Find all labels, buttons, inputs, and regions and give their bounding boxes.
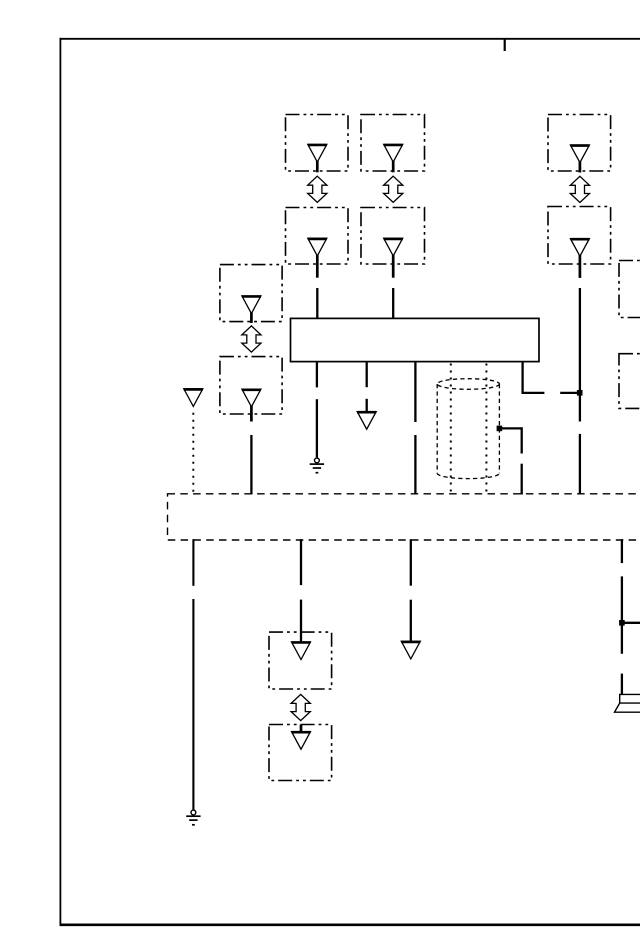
module box C1 [220,265,282,322]
module box A2 [361,115,425,172]
shield terminal dot [497,426,503,432]
connector symbol in B3 [570,239,589,278]
ground G1 [310,458,324,473]
dotted shielded wire 1 [450,364,452,494]
module box B3 [548,207,611,265]
module box D1 [269,632,332,689]
connector symbol in A3 [570,145,589,173]
arrow terminal A [357,412,376,430]
chassis ground symbol [615,694,640,712]
wire U1 corner to node J1 (dashed style) [523,362,579,393]
module box A3 [548,115,611,172]
wire U1 to harness [414,362,416,494]
inline connector pair arrow 5 [291,694,310,720]
wire harness to arrow terminal B [410,539,412,641]
harness band (dashed box) [168,494,640,540]
connector symbol in B2 [384,238,403,277]
wire C2 to harness [250,435,252,495]
module box E1 (partial, right edge) [619,261,640,318]
dotted shielded wire 2 [485,364,487,494]
wire B1 to U1 [316,288,318,318]
module box B2 [361,208,425,265]
module box A1 [286,115,349,172]
connector symbol in D2 [292,725,311,750]
wire B2 to U1 [392,288,394,318]
wire B3 down [579,288,581,495]
wire U1 to ground G1 [316,362,318,457]
inline connector pair arrow 4 [242,326,261,352]
module box E2 (partial, right edge) [619,354,640,409]
wire harness to ground G2 [192,539,194,809]
standalone connector arrow S1 [184,389,203,407]
connector symbol in C1 [242,296,261,323]
arrow terminal B [401,641,420,659]
connector symbol in B1 [308,238,327,277]
shield cylinder (dashed) [437,379,499,479]
connector symbol in C2 [242,389,261,421]
control unit U1 [291,318,540,361]
module box C2 [220,357,282,414]
connector symbol in D1 [292,642,311,660]
module box D2 [269,725,332,781]
wire shield to harness [501,428,522,494]
inline connector pair arrow 3 [570,176,589,202]
junction J2 [619,620,625,626]
wire U1 stub with arrow [366,362,368,411]
wire harness to chassis ground [621,539,623,694]
inline connector pair arrow 2 [384,176,403,202]
wire dotted from S1 to harness [192,413,194,494]
inline connector pair arrow 1 [308,176,327,202]
junction J1 [577,390,583,396]
wire J2 to right [622,622,640,624]
wire harness to D1 [300,539,302,641]
ground G2 [186,810,200,825]
connector symbol in A2 [384,144,403,172]
module box B1 [286,208,349,265]
connector symbol in A1 [308,144,327,172]
